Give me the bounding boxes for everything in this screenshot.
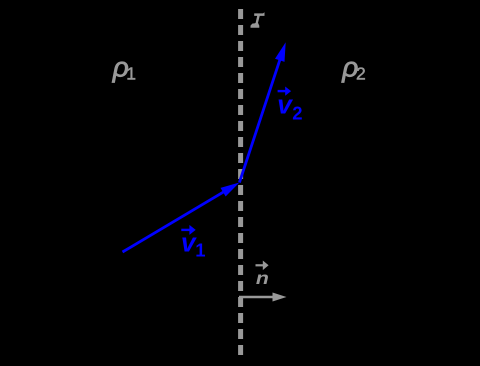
- svg-text:1: 1: [126, 64, 136, 84]
- svg-text:v: v: [277, 90, 293, 120]
- svg-text:n: n: [256, 268, 269, 288]
- svg-text:1: 1: [195, 240, 205, 261]
- svg-text:2: 2: [356, 64, 366, 84]
- svg-text:2: 2: [292, 103, 302, 124]
